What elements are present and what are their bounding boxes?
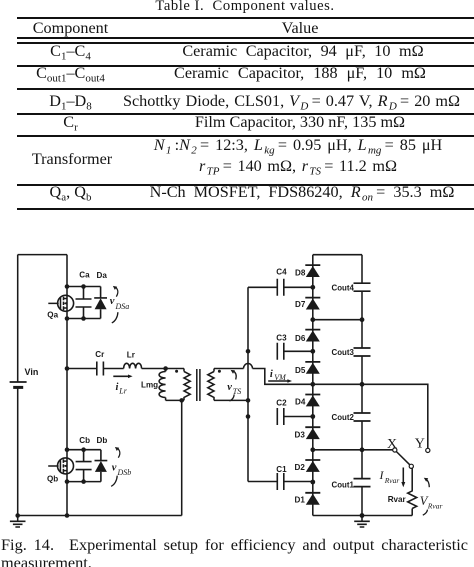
svg-text:C4: C4: [276, 268, 287, 277]
svg-text:D3: D3: [295, 431, 306, 440]
svg-text:v: v: [110, 296, 115, 307]
svg-text:D5: D5: [295, 366, 306, 375]
svg-text:Cout3: Cout3: [332, 348, 355, 357]
svg-text:Rvar: Rvar: [384, 476, 400, 485]
svg-text:v: v: [227, 382, 232, 393]
svg-text:Qb: Qb: [47, 474, 58, 483]
svg-text:D7: D7: [295, 300, 306, 309]
svg-text:D8: D8: [295, 268, 306, 277]
svg-text:Vin: Vin: [25, 367, 39, 377]
svg-text:Cout2: Cout2: [332, 413, 355, 422]
svg-text:Cout4: Cout4: [332, 283, 355, 292]
svg-text:Cb: Cb: [79, 436, 90, 445]
svg-text:C2: C2: [276, 398, 287, 407]
svg-text:DSb: DSb: [117, 468, 132, 477]
svg-text:Cr: Cr: [95, 350, 105, 359]
svg-text:Lr: Lr: [118, 387, 127, 396]
svg-text:DSa: DSa: [115, 302, 130, 311]
svg-text:i: i: [116, 382, 119, 393]
svg-text:X: X: [387, 437, 397, 452]
svg-text:i: i: [270, 369, 273, 380]
svg-text:Da: Da: [97, 271, 108, 280]
svg-text:I: I: [379, 468, 385, 482]
svg-text:Rvar: Rvar: [427, 501, 443, 510]
svg-text:D6: D6: [295, 334, 306, 343]
svg-text:D4: D4: [295, 398, 306, 407]
svg-text:Qa: Qa: [47, 311, 58, 320]
svg-text:Db: Db: [97, 436, 108, 445]
svg-text:D1: D1: [295, 496, 306, 505]
svg-text:Y: Y: [415, 437, 425, 452]
svg-text:D2: D2: [295, 463, 306, 472]
svg-text:C1: C1: [276, 465, 287, 474]
svg-text:Lmg: Lmg: [141, 381, 158, 390]
svg-text:Cout1: Cout1: [332, 481, 355, 490]
svg-text:Ca: Ca: [79, 271, 90, 280]
svg-text:C3: C3: [276, 334, 287, 343]
svg-text:TS: TS: [233, 387, 241, 396]
svg-text:VM: VM: [274, 373, 287, 382]
svg-text:v: v: [112, 462, 117, 473]
svg-text:Lr: Lr: [127, 350, 136, 359]
svg-text:Rvar: Rvar: [388, 495, 407, 504]
